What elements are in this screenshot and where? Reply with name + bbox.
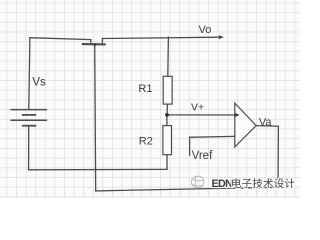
junction node V+ divider — [165, 113, 169, 117]
wire bottom-left horizontal to R2 — [29, 168, 167, 170]
arrowhead V+ at op-amp input — [235, 113, 240, 118]
battery Vs plate short bottom — [23, 125, 36, 127]
svg-text:V+: V+ — [191, 102, 204, 114]
transistor Q1 channel bar — [83, 43, 105, 46]
wire Vref terminal stub — [189, 137, 191, 155]
transistor Q1 drain stub — [101, 39, 103, 45]
transistor Q1 source stub — [90, 40, 92, 45]
wire right vertical feedback — [277, 126, 279, 187]
arrowhead Vo output — [219, 35, 224, 39]
svg-text:Vs: Vs — [32, 77, 46, 89]
resistor R1 body — [163, 76, 172, 104]
wire Q1 drain to Vo arrow — [102, 37, 219, 38]
wire branch top rail down to R1 — [167, 37, 170, 76]
wire top-left horizontal Vs+ to Q1 source — [30, 38, 91, 40]
svg-text:R2: R2 — [139, 135, 153, 147]
wire R2 bottom lead — [166, 155, 168, 170]
wire gate vertical Q1 to bottom feedback — [95, 44, 96, 191]
resistor R2 body — [163, 126, 172, 155]
wire R1 bottom lead — [166, 104, 169, 115]
battery Vs plate long — [11, 119, 46, 121]
battery Vs plate long top — [11, 109, 46, 111]
wire op-amp output Va — [256, 125, 278, 128]
battery Vs plate short — [23, 114, 36, 116]
svg-text:EDN: EDN — [212, 178, 234, 190]
wire battery negative vertical — [28, 126, 30, 170]
watermark text 电子技术设计 (drawn glyph outlines) — [232, 178, 294, 188]
wire V+ horizontal to op-amp — [167, 114, 236, 116]
wire Vref horizontal to op-amp inverting input — [190, 136, 239, 137]
op-amp U1 triangle — [235, 103, 256, 147]
watermark logo doodle — [191, 176, 204, 188]
wire bottom feedback horizontal — [96, 187, 278, 191]
wire R2 top lead — [166, 115, 168, 126]
wire left vertical Vs+ — [29, 38, 30, 110]
svg-text:Vo: Vo — [199, 24, 212, 36]
svg-text:Vref: Vref — [192, 150, 213, 162]
svg-text:Va: Va — [259, 117, 273, 129]
svg-text:R1: R1 — [138, 83, 152, 95]
junction gate-channel Q1 — [93, 43, 96, 46]
